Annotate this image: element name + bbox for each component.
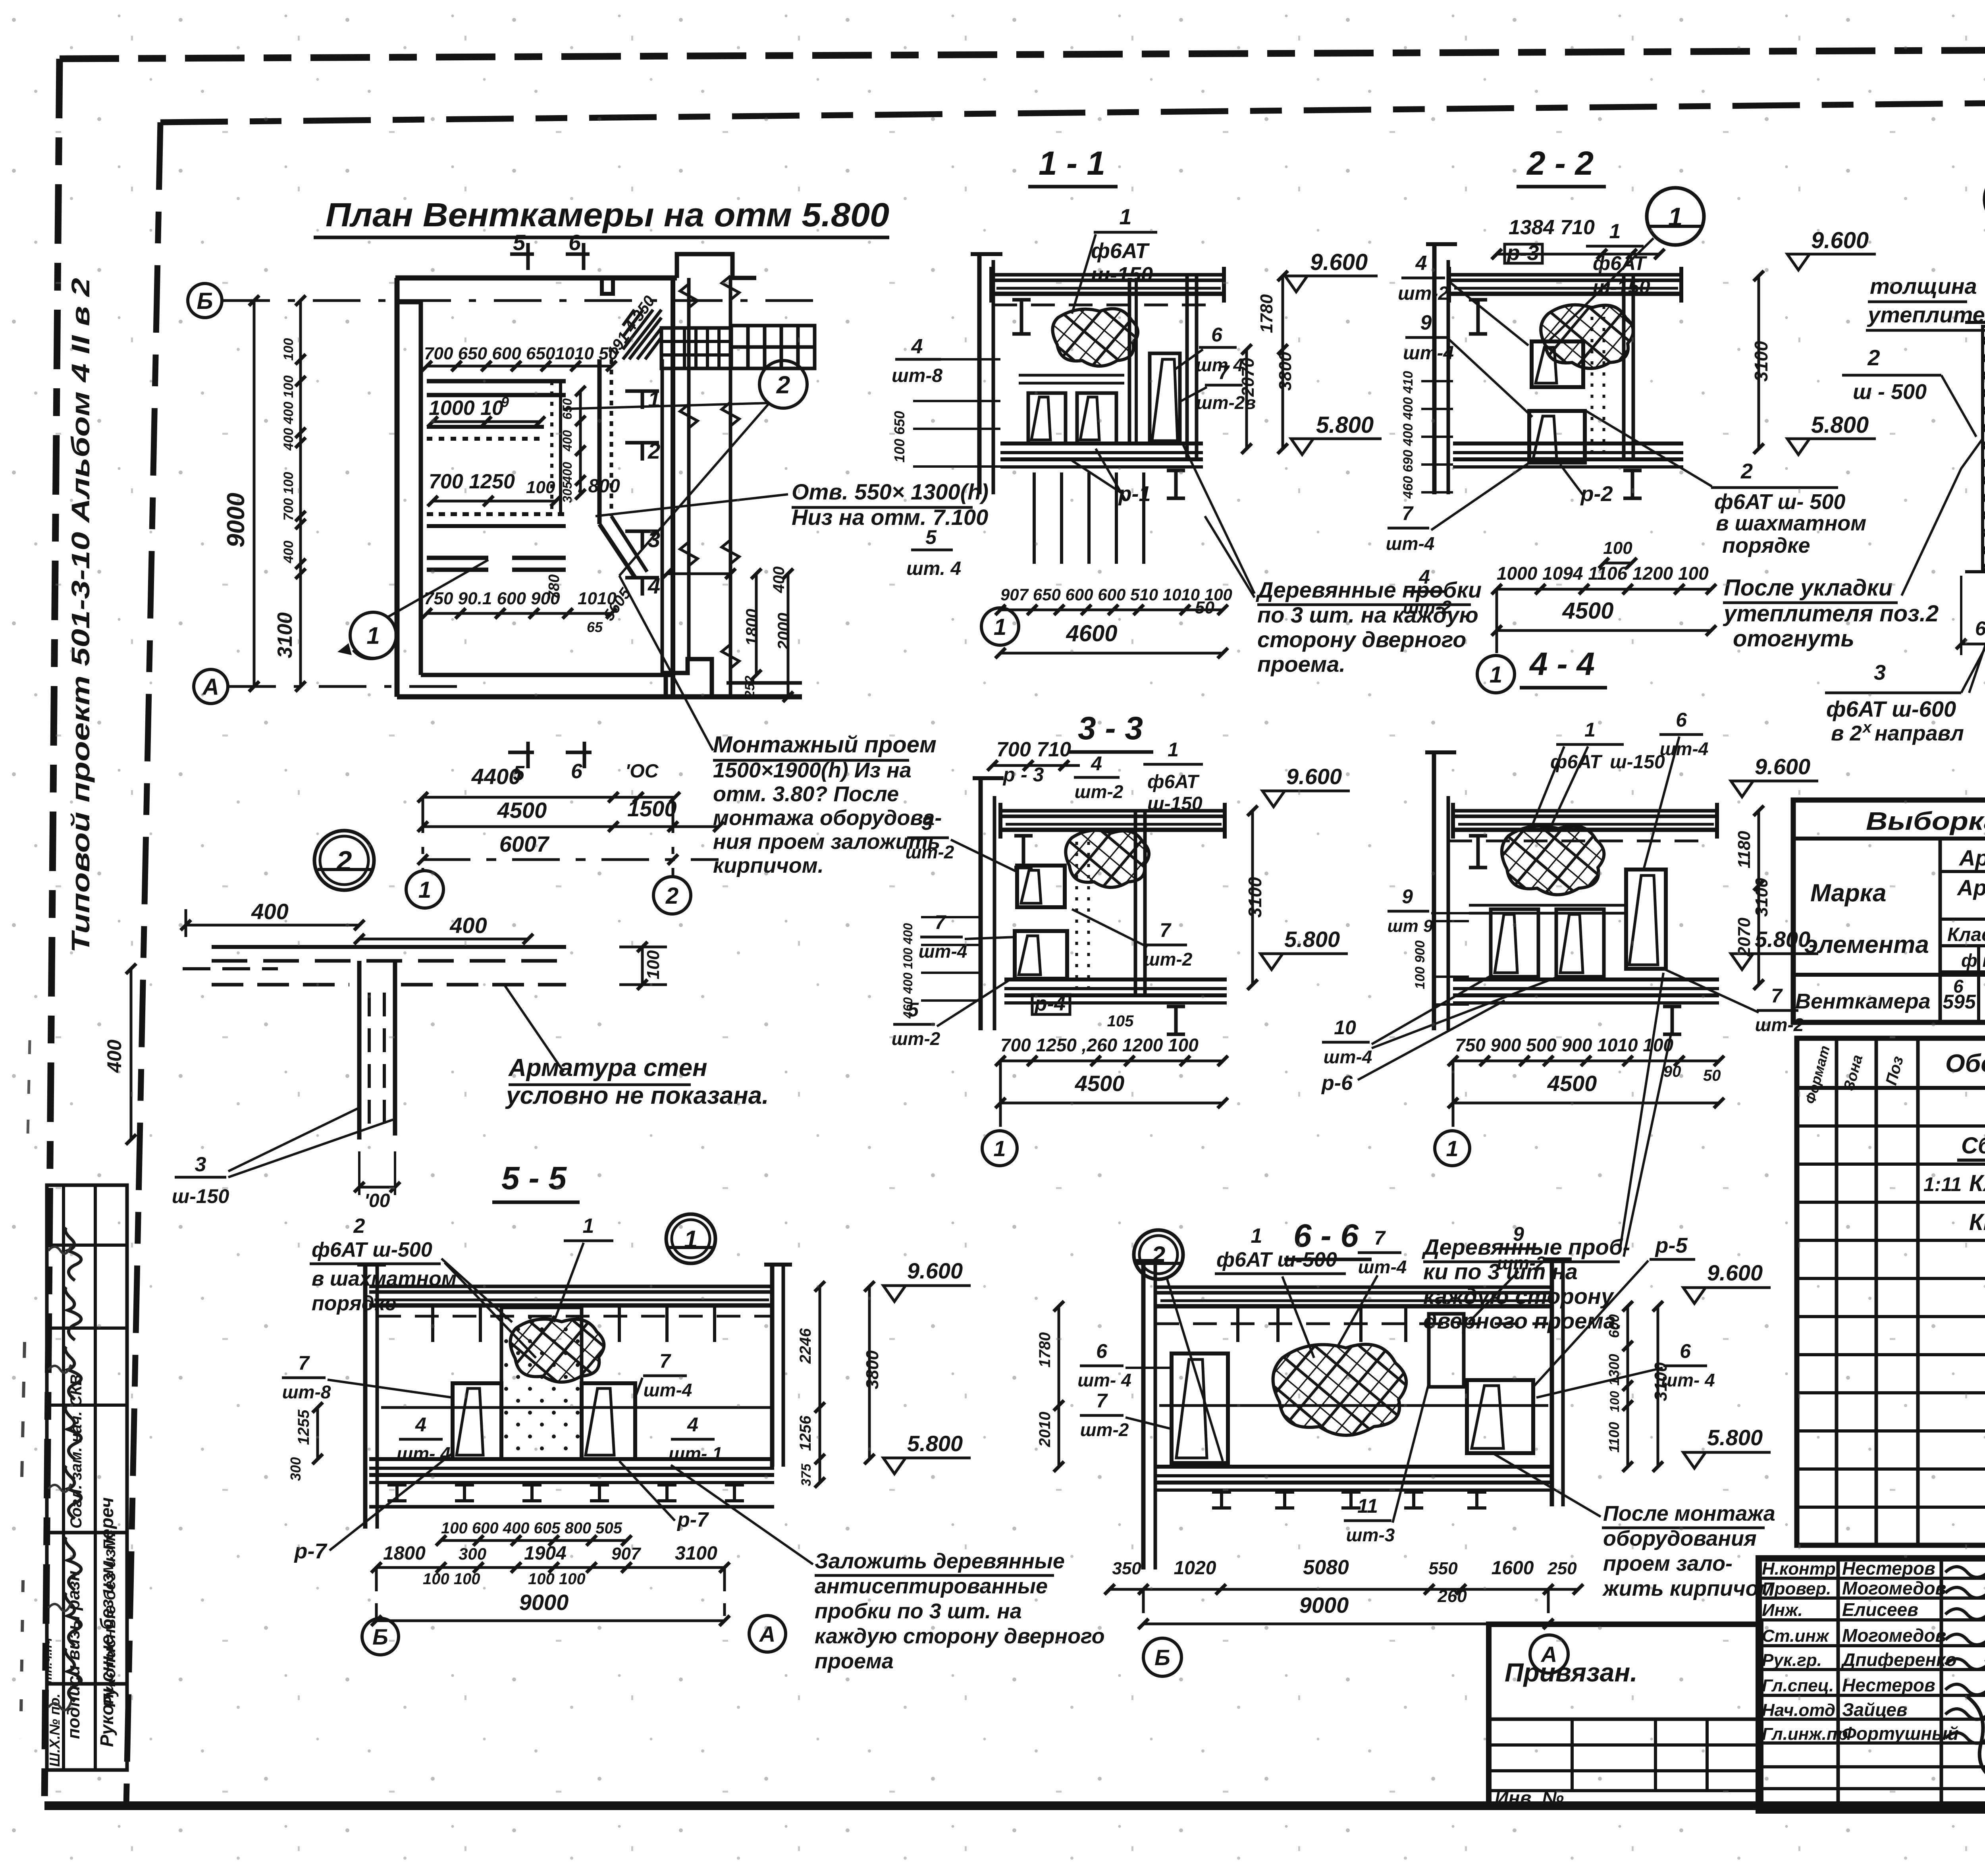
plan section mark 6 top [566,253,590,256]
s22 roof beam [1449,273,1683,277]
plan axis line А [228,685,468,688]
plan grid block top right [661,328,731,368]
sheet bottom heavy border [44,1801,1985,1810]
s66 roof beam [1155,1286,1553,1289]
s55 lower slab [369,1457,774,1461]
s11 rebar lines [1019,374,1124,377]
uzel 2 circle above 6-6 [1134,1230,1183,1279]
uzel 2 dim 400 right [359,938,528,941]
plan outer wall bottom [397,694,802,700]
s55 left wall [363,1263,368,1529]
s11 dashed ceiling line [993,304,1211,307]
s11 net blob [1052,309,1138,366]
s66 right door frame [1467,1380,1533,1453]
s22 wall verticals [1622,275,1626,459]
plan interior wall band 3 [427,512,566,516]
s44 rebar frames left [1491,909,1538,977]
s22 axis circle 1 [1495,589,1498,653]
names table grid [1759,1577,1985,1580]
plan outer wall top-right step [677,254,756,278]
s22 net blob [1541,305,1633,368]
s11 left wall [977,252,982,494]
s55 horizontal rebar line [381,1406,770,1409]
s11 right dim chain [1282,276,1284,449]
plan leader circle 2 [759,361,807,408]
plan section T-marks right [625,389,659,393]
s66 right dims rotated [1627,1306,1629,1467]
s55 center column speckled [501,1307,582,1459]
uzel 2 dim 100 right [641,947,644,985]
s22 embed frames [1532,341,1583,387]
s44 roof beam [1453,809,1719,813]
plan vertical dim 9000 [253,301,256,686]
s33 embed frames [1017,866,1065,907]
s55 right wall [770,1263,775,1467]
plan outer wall bottom step [666,659,712,697]
plan axis stems below [422,797,424,871]
plan outer wall right [671,278,675,697]
s11 lower slab [1000,442,1203,445]
s33 axis circle 1 [999,1061,1002,1127]
s66 axis circle Б [1142,1589,1145,1621]
s66 left dims rotated [1058,1306,1060,1467]
plan interior vertical dotted column [550,381,553,514]
inner frame line left [126,122,160,1806]
scan artifact dashes outside border [22,1342,25,1477]
s55 axis circle А [723,1568,726,1616]
s66 axis circle А [1547,1589,1550,1619]
s66 big net blob [1273,1344,1407,1435]
plan right dim 400 [667,573,730,575]
s33 hanger ibeam [1014,836,1033,868]
uzel 2 bottom dim 100 [359,1186,395,1189]
plan section mark 5 top [510,253,534,256]
spec table frame [1797,1038,1985,1545]
s33 wall verticals [1134,811,1137,995]
uzel 2 dim 400 left [186,924,359,927]
plan section mark 6 bottom [566,751,592,754]
uzel 2 wall stem [357,961,362,1139]
plan interior wall band 4 doors [427,556,488,560]
plan far right break line [729,278,732,697]
s11 wall verticals [1128,278,1131,445]
uzel 1 wall bottom line [1965,570,1985,573]
plan outer wall top notch [602,278,613,294]
s11 hanger ibeam [1012,300,1031,334]
s55 net blob [510,1319,604,1382]
s22 lower slab [1453,442,1683,445]
spec row lines [1797,1124,1985,1128]
s55 dashed ceiling line [377,1315,770,1318]
s55 floor ibeams [387,1485,407,1501]
left stamp grid [47,1185,127,1533]
s11 lower posts [1033,472,1036,564]
s66 right upper rect [1429,1314,1464,1387]
plan outer wall top [395,276,677,281]
plan outer wall left [395,278,400,697]
plan interior small dim column [579,391,582,494]
s55 roof beam [369,1285,774,1288]
s33 right dim chain [1251,811,1254,985]
inner frame line top [160,97,1985,122]
uzel 2 slab top lines [212,945,566,949]
s22 left wall [1432,242,1437,494]
s44 horizontal rebar lines [1469,904,1626,907]
uzel 2 dim 400 vertical left [130,969,133,1139]
s44 dashed ceiling line [1448,840,1707,843]
signature squiggles [1945,1567,1985,1577]
sheet outer dashed border [60,48,1985,59]
plan axis circle 2 below [653,877,691,914]
s33 left wall [979,776,983,1030]
vyborka table frame [1793,800,1985,1022]
title block outer frame [1759,1558,1985,1810]
privyazan box [1489,1624,1761,1805]
s55 left door frame [453,1383,501,1459]
s66 right wall [1550,1257,1554,1506]
s55 right door frame [582,1383,635,1459]
s55 hanger verticals [431,1305,434,1342]
s44 axis circle 1 [1452,1061,1455,1127]
plan dim chain 3100 etc [299,301,302,686]
spec column lines [1835,1038,1839,1545]
vyborka data row [1793,973,1985,977]
s66 floor ibeams [1212,1492,1231,1508]
s44 left wall [1432,750,1436,1030]
s44 hanger ibeam [1469,836,1487,868]
s44 net blob [1502,826,1604,895]
s44 door frame right [1626,870,1666,969]
s44 right dim chain [1758,811,1760,985]
s66 horizontal rebar line [1159,1404,1548,1407]
s55 axis circle Б [375,1568,378,1618]
s66 hanger verticals [1236,1306,1239,1342]
s44 lower slab [1453,978,1719,981]
plan section mark 5 bottom [508,751,534,754]
s66 left wall [1141,1259,1146,1569]
plan axis circle Б [188,283,222,318]
plan right edge break line [687,278,691,659]
plan detail circle 1 with arrow [350,612,396,658]
s66 left door frame [1172,1353,1228,1463]
plan interior wall band 2 dotted [427,425,544,429]
s55 right dim chain [819,1286,821,1483]
plan interior wall band 1 [427,379,566,384]
s11 embed frame b [1077,393,1116,443]
plan axis line Б [222,299,818,302]
s22 hanger ibeam [1469,300,1487,334]
s22 dotted column [1591,306,1594,461]
s11 roof beam [991,273,1226,277]
plan interior vertical wall [597,359,602,524]
s55 uzel circle 1 [666,1214,715,1263]
s33 roof beam [1000,809,1227,813]
uzel 1 insulation hatched strip [1983,326,1985,572]
s33 lower slab [1004,978,1227,981]
uzel 1 bottom dims [1961,643,1985,646]
uzel 1 wall top line [1965,321,1985,324]
s22 uzel circle 1 [1647,188,1704,245]
plan hatched block top right [623,310,661,359]
s66 lower slab [1155,1465,1553,1469]
s11 axis circle 1 [981,608,1019,645]
plan axis circle 1 below [406,871,443,908]
s11 embed frame a [1028,393,1066,443]
vyborka header grid [1939,839,1942,1022]
s33 dotted column [1075,842,1078,997]
s22 right dim chain [1758,276,1760,449]
s66 dashed ceiling line [1155,1323,1548,1325]
uzel 1 marker circle [1985,170,1985,228]
s33 net blob [1066,830,1149,887]
uzel 2 marker double circle [314,831,374,890]
plan interior slant wall [599,524,635,578]
plan axis circle А [194,669,228,704]
s11 door frame [1150,353,1180,443]
plan right dims 1800 2000 [755,574,758,675]
